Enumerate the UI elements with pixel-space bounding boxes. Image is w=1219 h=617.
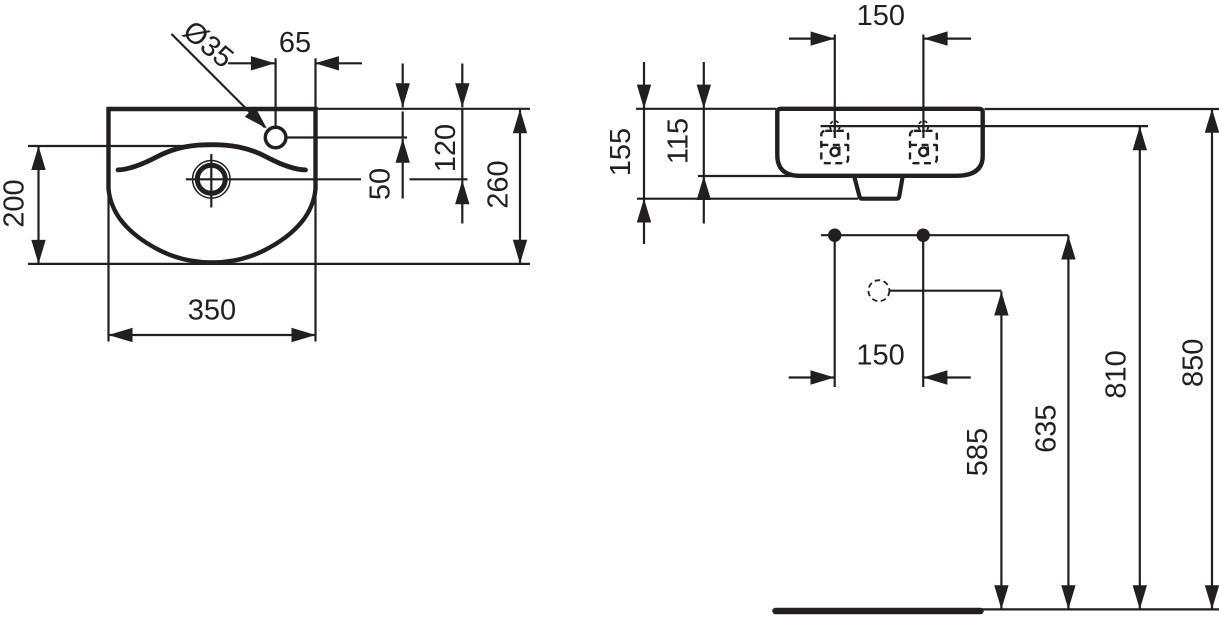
dim 65 line right [315, 62, 362, 64]
svg-text:50: 50 [365, 168, 397, 200]
svg-text:260: 260 [483, 160, 515, 208]
basin bottom ref line [698, 175, 855, 177]
dim 635 [1067, 236, 1069, 610]
65 extension line at hole center [275, 58, 277, 125]
tap hole plane line [821, 125, 1149, 127]
svg-text:850: 850 [1178, 339, 1210, 387]
dashed tap hole box right [910, 131, 937, 163]
dim 120 bottom arrow [461, 180, 463, 223]
drain center line / 120 ref, segment B [410, 178, 468, 180]
dim 150 bottom [789, 376, 835, 378]
dim 120 line [461, 109, 463, 179]
dim 200 line [37, 146, 39, 264]
dim 585 [1000, 292, 1002, 610]
crosshair circle right [918, 121, 928, 131]
dim 150 top [789, 37, 835, 39]
crosshair circle left [830, 121, 840, 131]
svg-text:115: 115 [663, 118, 695, 164]
floor thin line [981, 608, 1219, 610]
svg-text:810: 810 [1101, 350, 1133, 398]
fixing verticals [834, 235, 836, 387]
top edge right extension [317, 108, 530, 110]
drain outer thin circle [193, 161, 231, 199]
dashed outlet circle [868, 280, 889, 301]
inner rim wave [118, 145, 306, 170]
leader line O35 [171, 34, 264, 127]
sigma glyph right [919, 148, 927, 156]
svg-text:635: 635 [1030, 405, 1062, 453]
sigma glyph left [831, 148, 839, 156]
dim 50 bottom arrow [402, 139, 404, 199]
drain center line / 120 ref, segment A [186, 178, 361, 180]
dim 850 [1211, 109, 1213, 610]
tap hole [265, 127, 286, 148]
trap [855, 178, 903, 199]
outlet ref line [890, 290, 1002, 292]
dim 50 top arrow [402, 64, 404, 108]
svg-text:120: 120 [430, 124, 462, 172]
top line left ext [636, 108, 776, 110]
svg-text:200: 200 [0, 179, 31, 227]
svg-text:155: 155 [605, 128, 637, 176]
dim 50 segment between refs [402, 112, 404, 138]
fixing dots line [821, 234, 1068, 236]
svg-text:150: 150 [856, 340, 904, 372]
fixing dots [828, 229, 841, 242]
hole center line [287, 136, 407, 138]
dim 155 [643, 62, 645, 109]
150 top extensions [834, 35, 836, 139]
350 left extension [107, 196, 109, 342]
drain thick ring [197, 165, 225, 193]
svg-text:150: 150 [857, 0, 905, 32]
basin profile [777, 109, 982, 176]
top line right ext [985, 108, 1219, 110]
bottom of trap ref line [637, 198, 858, 200]
mid dashed line left box [821, 144, 848, 146]
dashed tap hole box left [821, 131, 848, 163]
basin outline [109, 109, 316, 263]
bottom reference line [28, 263, 530, 265]
svg-text:65: 65 [279, 27, 311, 59]
350 right extension [314, 193, 316, 342]
drain crosshair vertical [210, 154, 212, 208]
svg-text:585: 585 [962, 428, 994, 476]
svg-text:350: 350 [188, 295, 236, 327]
dim 65 line left [228, 62, 275, 64]
floor thick bar [776, 608, 981, 615]
dim 120 top arrow [461, 64, 463, 108]
dim 350 line [109, 334, 316, 336]
dim 810 [1139, 126, 1141, 609]
dim 260 line [519, 109, 521, 264]
65 extension line at right edge [314, 58, 316, 107]
mid dashed line right box [910, 144, 937, 146]
svg-text:Ø35: Ø35 [177, 15, 240, 75]
200 top reference line [28, 145, 211, 147]
dim 115 [703, 62, 705, 109]
